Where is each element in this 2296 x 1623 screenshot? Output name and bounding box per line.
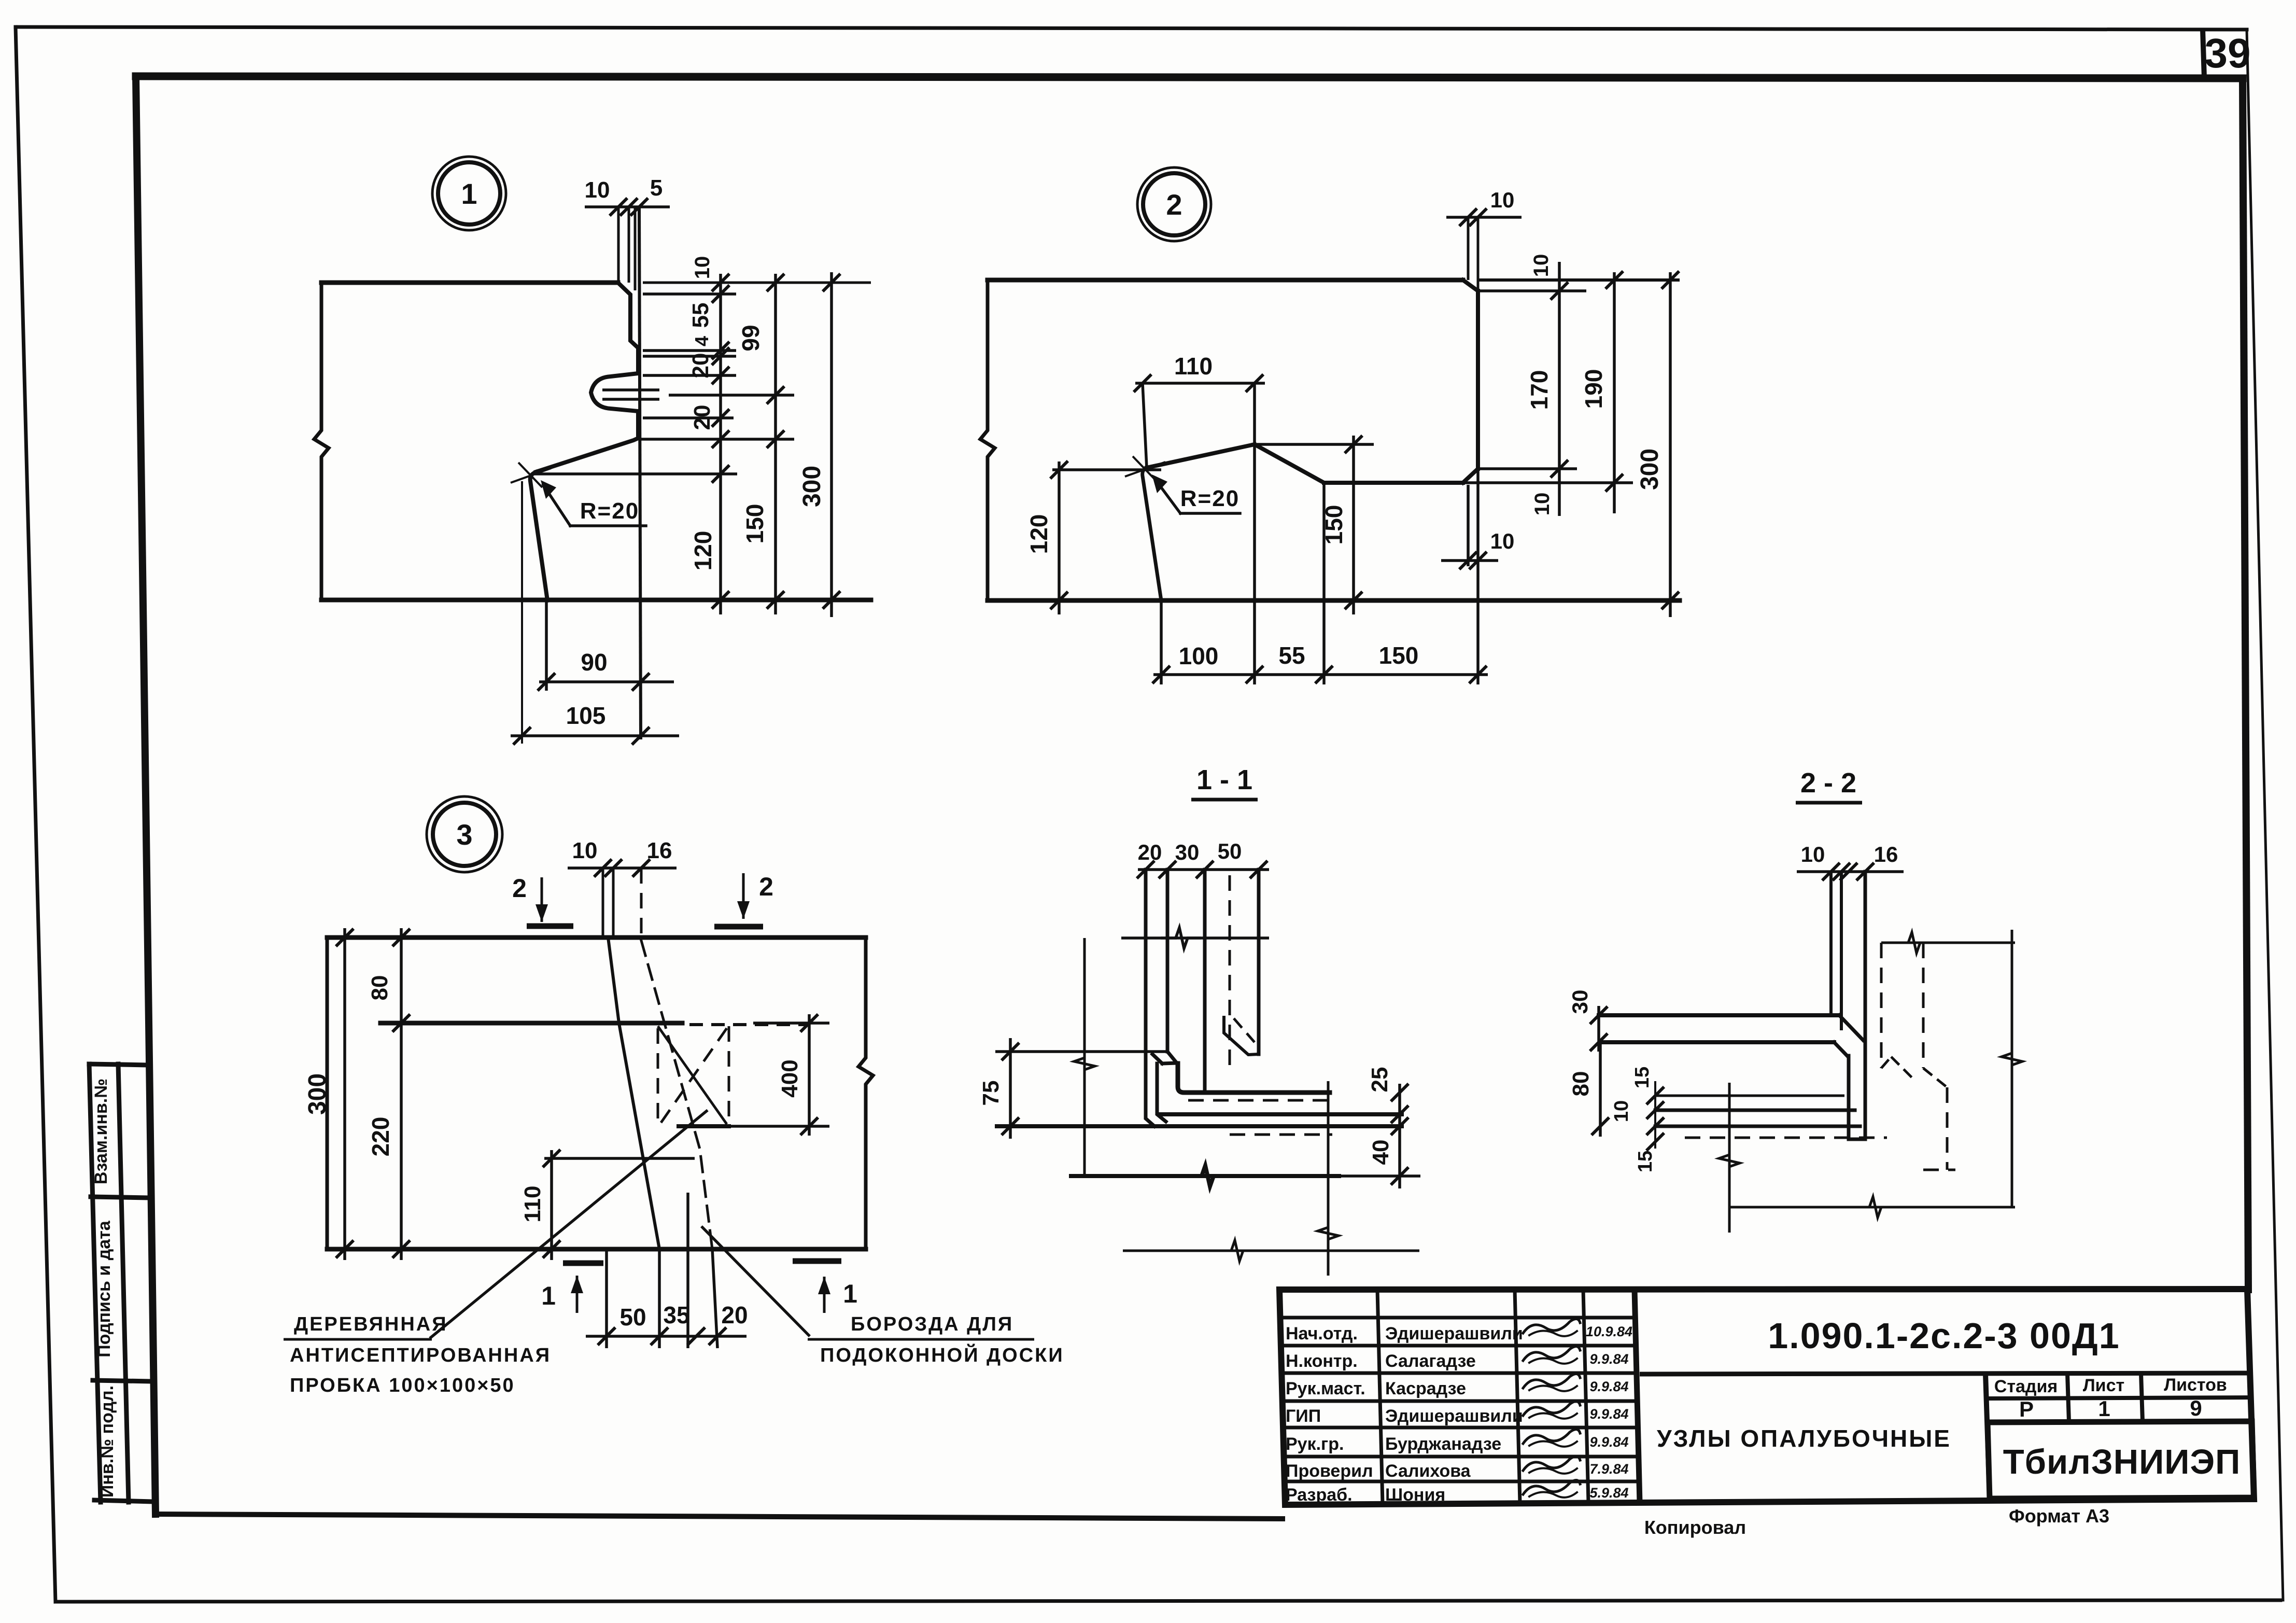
- detail 3 board solid line: [603, 868, 659, 1249]
- svg-text:35: 35: [663, 1302, 689, 1328]
- svg-text:ТбилЗНИИЭП: ТбилЗНИИЭП: [2003, 1443, 2241, 1481]
- callout text АНТИСЕПТИРОВАННАЯ: [290, 1345, 551, 1366]
- detail 3 sill line: [381, 1021, 682, 1026]
- detail 1 top dim text 10: [585, 177, 610, 203]
- svg-text:Касрадзе: Касрадзе: [1385, 1379, 1466, 1398]
- detail 3 left dim chain outer: [336, 928, 354, 1260]
- detail 2 lower board lines: [1468, 471, 1478, 684]
- section 2-2 slab second line: [1600, 1040, 1834, 1044]
- svg-text:2 - 2: 2 - 2: [1800, 767, 1856, 799]
- detail 2 ext mid vertical: [1253, 383, 1256, 684]
- section 1-1 flange mid line: [1161, 1112, 1402, 1116]
- detail 3 section mark 1 left: [541, 1263, 603, 1313]
- svg-text:80: 80: [1568, 1071, 1594, 1097]
- section 2-2 bottom boundary line: [1729, 1197, 2015, 1218]
- detail 2 steep drip line: [1143, 468, 1161, 600]
- section 2-2 dim 16 text: [1874, 842, 1898, 866]
- detail 3 plug box dashed left edge: [657, 1028, 659, 1124]
- detail 1 dim chain C line: [823, 272, 840, 617]
- section 1-1 outer left wall: [1146, 870, 1154, 1126]
- detail 2 ext 110 left: [1143, 383, 1147, 468]
- svg-text:Шония: Шония: [1385, 1485, 1445, 1505]
- svg-text:105: 105: [566, 702, 606, 729]
- detail 2 board verticals: [1468, 217, 1478, 291]
- left strip frame: [89, 1064, 153, 1502]
- detail 1 level line 762: [669, 394, 794, 397]
- section label 1-1: [1191, 764, 1258, 800]
- section 1-1 right wall: [1257, 870, 1261, 1054]
- svg-text:Лист: Лист: [2083, 1376, 2124, 1395]
- section 1-1 dim 50 text: [1218, 839, 1242, 863]
- svg-text:Проверил: Проверил: [1286, 1461, 1373, 1481]
- section 1-1 dim 40 text: [1368, 1140, 1393, 1165]
- detail 2 dim 10 upper right text: [1530, 254, 1553, 277]
- svg-text:15: 15: [1631, 1067, 1653, 1088]
- svg-text:170: 170: [1526, 370, 1553, 410]
- detail 1 panel right profile: [530, 283, 638, 600]
- detail 1 ext line 90 left: [545, 601, 548, 691]
- title row Нач.отд.: [1286, 1319, 1632, 1344]
- detail 1 level line 806: [643, 416, 734, 419]
- section 1-1 lower boundary line: [1123, 1250, 1419, 1252]
- svg-text:300: 300: [1636, 449, 1664, 490]
- org name ТбилЗНИИЭП: [2003, 1443, 2241, 1481]
- detail 1 dim 90: [538, 673, 674, 691]
- section 1-1 flange hidden dashed bottom: [1230, 1134, 1332, 1136]
- detail 3 dim 300 text: [304, 1073, 331, 1115]
- section 1-1 dim 75 line: [1002, 1038, 1019, 1139]
- detail 3 top dim text 10: [572, 838, 598, 863]
- detail 2 shelf line: [1324, 481, 1463, 485]
- svg-text:20: 20: [721, 1302, 748, 1328]
- callout underline right: [808, 1338, 1034, 1341]
- detail 1 dim 105 text: [566, 702, 606, 729]
- svg-text:10: 10: [1611, 1100, 1632, 1122]
- detail 3 plug diagonal solid: [658, 1026, 727, 1124]
- svg-text:120: 120: [1025, 514, 1052, 554]
- detail 1 dim text 20 lower: [689, 405, 715, 430]
- detail 3 left dim chain inner: [392, 928, 410, 1260]
- section 2-2 hidden tongue dashed: [1881, 1057, 1947, 1087]
- svg-text:99: 99: [737, 325, 764, 351]
- section 2-2 hidden column dashed right: [1922, 943, 1925, 1068]
- section 1-1 flange bottom line: [997, 1124, 1402, 1128]
- section 1-1 inner left wall: [1166, 870, 1170, 1052]
- svg-text:Бурджанадзе: Бурджанадзе: [1385, 1434, 1501, 1454]
- detail 1 level line 685: [643, 355, 736, 358]
- detail 1 formwork board lines: [618, 207, 641, 739]
- svg-text:10: 10: [1801, 842, 1825, 866]
- callout text ДЕРЕВЯННАЯ: [294, 1313, 448, 1335]
- svg-text:50: 50: [1218, 839, 1242, 863]
- svg-text:Нач.отд.: Нач.отд.: [1286, 1324, 1358, 1344]
- detail 2 slope down: [1147, 444, 1255, 468]
- section 2-2 dim 10 small text: [1611, 1100, 1632, 1122]
- section 2-2 slab line 2141: [1655, 1109, 1855, 1112]
- section label 2-2: [1796, 767, 1862, 803]
- svg-text:10: 10: [1490, 529, 1515, 553]
- detail 3 left edge: [326, 938, 329, 1249]
- detail 3 section mark 2 left: [512, 874, 573, 926]
- svg-text:20: 20: [688, 353, 713, 379]
- detail 3 dim 400 text: [777, 1059, 802, 1097]
- section 1-1 dim 25 text: [1367, 1067, 1392, 1093]
- detail 3 slab top edge: [327, 935, 866, 940]
- detail 2 slope up: [1255, 444, 1324, 483]
- stadia header: [1994, 1375, 2227, 1396]
- detail 1 panel top edge: [321, 281, 871, 285]
- detail 2 dim 120 line: [1050, 461, 1068, 614]
- section 2-2 dim 30 line: [1590, 1006, 1608, 1052]
- svg-text:4: 4: [691, 336, 712, 346]
- detail 3 level line 2172 ext: [729, 1125, 829, 1128]
- section 1-1 flange hidden dashed top: [1188, 1099, 1332, 1102]
- svg-text:220: 220: [367, 1117, 394, 1157]
- svg-text:20: 20: [1138, 840, 1162, 864]
- svg-text:1: 1: [2098, 1396, 2110, 1421]
- detail 1 level line 676: [643, 349, 736, 352]
- detail 3 level line 2234: [544, 1157, 695, 1160]
- detail 3 board dashed line: [641, 868, 712, 1249]
- svg-text:Стадия: Стадия: [1994, 1377, 2058, 1396]
- svg-text:7.9.84: 7.9.84: [1589, 1461, 1628, 1477]
- svg-text:Инв.№ подл.: Инв.№ подл.: [97, 1386, 117, 1498]
- detail 2 dim 150 text: [1320, 505, 1347, 545]
- detail 2 bottom ext left: [1160, 601, 1163, 684]
- svg-text:20: 20: [689, 405, 715, 430]
- detail 3 dim 220 text: [367, 1117, 394, 1157]
- callout text БОРОЗДА ДЛЯ: [851, 1313, 1013, 1335]
- detail 3 plug diagonal dashed: [660, 1028, 727, 1124]
- section 1-1 top dim line: [1137, 861, 1269, 878]
- svg-text:150: 150: [741, 504, 768, 544]
- detail 2 level line 561: [1478, 289, 1586, 292]
- svg-text:40: 40: [1368, 1140, 1393, 1165]
- title row Рук.гр.: [1286, 1429, 1629, 1454]
- svg-text:10: 10: [572, 838, 598, 863]
- detail 2 dim 100 text: [1179, 642, 1219, 669]
- detail 2 bottom dim chain: [1152, 666, 1488, 683]
- title row Н.контр.: [1286, 1346, 1629, 1371]
- detail 2 ext 150 left: [1322, 483, 1326, 684]
- section 2-2 hidden column dashed left: [1880, 943, 1883, 1068]
- doc number: [1768, 1316, 2120, 1356]
- section 2-2 top dim line: [1797, 863, 1904, 880]
- section 2-2 corner chamfers: [1834, 1015, 1863, 1056]
- section 2-2 dim 15 lower text: [1635, 1151, 1656, 1172]
- section 2-2 dim 80 line: [1591, 1042, 1609, 1137]
- detail 1 dim text 300: [798, 466, 826, 507]
- svg-text:ГИП: ГИП: [1286, 1406, 1321, 1426]
- detail 1 dim text 4: [691, 336, 712, 346]
- detail 1 corner construction cross: [511, 463, 551, 487]
- title block column lines: [1377, 1290, 1640, 1504]
- svg-text:Подпись и дата: Подпись и дата: [94, 1220, 114, 1358]
- detail 2 left break edge: [980, 280, 995, 600]
- section 1-1 ext line 2028: [995, 1050, 1167, 1053]
- detail 1 top dimension line: [585, 198, 670, 216]
- detail 3 dim 110 line: [543, 1150, 560, 1260]
- section 2-2 small ticks lower: [1646, 1117, 1664, 1151]
- detail 3 dim 110 text: [520, 1186, 545, 1223]
- section 1-1 concrete bottom edge: [1071, 1174, 1339, 1178]
- detail 1 dim text 99: [737, 325, 764, 351]
- detail 3 bottom dim chain: [586, 1327, 746, 1345]
- svg-text:1: 1: [843, 1279, 857, 1308]
- svg-text:55: 55: [688, 303, 713, 328]
- detail 2 face vertical: [1476, 291, 1480, 469]
- svg-text:110: 110: [520, 1186, 545, 1223]
- section 2-2 dim 10 text: [1801, 842, 1825, 866]
- detail 2 dim 170 line: [1551, 262, 1568, 516]
- detail 1 level line 845: [640, 438, 794, 441]
- detail 1 dim chain A line: [712, 274, 729, 614]
- section 1-1 sill tongue: [1224, 1017, 1259, 1055]
- svg-text:ПОДОКОННОЙ ДОСКИ: ПОДОКОННОЙ ДОСКИ: [820, 1343, 1064, 1366]
- section 1-1 left boundary break: [1074, 1044, 1095, 1082]
- detail 1 level line 724: [643, 374, 736, 377]
- svg-text:9.9.84: 9.9.84: [1589, 1406, 1628, 1422]
- detail 1 top dim text 5: [650, 175, 663, 201]
- svg-text:Листов: Листов: [2164, 1375, 2227, 1395]
- callout leader groove: [701, 1226, 810, 1336]
- stadia values: [2019, 1396, 2202, 1421]
- detail 1 dim text 150: [741, 504, 768, 544]
- left strip label Подпись и дата: [94, 1220, 114, 1358]
- detail 2 radius text: [1180, 486, 1239, 511]
- detail 2 small dim 10 lower text: [1490, 529, 1515, 553]
- detail 1 dim text 10: [691, 256, 714, 279]
- title block right divider: [1640, 1373, 2250, 1374]
- svg-text:Эдишерашвили: Эдишерашвили: [1385, 1324, 1523, 1344]
- svg-text:110: 110: [1174, 353, 1213, 380]
- svg-text:1: 1: [461, 177, 477, 210]
- svg-text:Копировал: Копировал: [1644, 1517, 1746, 1538]
- left strip label Взам.инв.№: [91, 1079, 111, 1184]
- detail 1 dim text 55: [688, 303, 713, 328]
- detail 2 level line 857: [1255, 443, 1374, 446]
- svg-text:1: 1: [541, 1281, 556, 1310]
- detail 3 top dim text 16: [647, 838, 672, 863]
- svg-text:39: 39: [2205, 30, 2251, 76]
- svg-text:Н.контр.: Н.контр.: [1286, 1351, 1358, 1371]
- section 2-2 board verticals: [1831, 872, 1865, 1139]
- section 2-2 dim 15 upper: [1646, 1081, 1664, 1149]
- svg-text:10: 10: [1530, 254, 1553, 277]
- section 2-2 left boundary vertical: [1719, 1083, 1740, 1233]
- section 1-1 lower boundary vertical break: [1318, 1214, 1339, 1251]
- section 1-1 dim 75 text: [978, 1081, 1004, 1106]
- detail 3 sill line dashed part: [689, 1023, 807, 1026]
- svg-text:3: 3: [456, 818, 472, 851]
- section 2-2 slab line 2113: [1655, 1095, 1844, 1097]
- left strip label Инв.№ подл.: [97, 1386, 117, 1498]
- detail 2 panel bottom edge: [988, 598, 1680, 603]
- svg-text:БОРОЗДА ДЛЯ: БОРОЗДА ДЛЯ: [851, 1313, 1013, 1335]
- sheet title УЗЛЫ ОПАЛУБОЧНЫЕ: [1657, 1425, 1951, 1452]
- svg-text:30: 30: [1568, 990, 1592, 1014]
- svg-text:R=20: R=20: [580, 498, 639, 524]
- detail 3 plug box dashed right edge: [728, 1026, 730, 1126]
- detail 2 top dim line: [1446, 208, 1522, 226]
- svg-text:Эдишерашвили: Эдишерашвили: [1385, 1406, 1523, 1426]
- svg-text:90: 90: [581, 649, 607, 676]
- svg-text:Рук.гр.: Рук.гр.: [1286, 1434, 1344, 1454]
- detail 2 dim 150b text: [1379, 642, 1419, 669]
- detail 2 bottom chamfer: [1463, 469, 1478, 483]
- detail 1 left break edge: [314, 283, 329, 600]
- svg-text:9.9.84: 9.9.84: [1589, 1434, 1628, 1450]
- callout text ПРОБКА: [290, 1375, 515, 1396]
- section 2-2 dim 80 text: [1568, 1071, 1594, 1097]
- svg-text:10: 10: [1490, 188, 1515, 212]
- title row ГИП: [1286, 1401, 1629, 1426]
- section 2-2 top boundary line: [1881, 932, 2015, 953]
- detail 2 level line 904 right: [1478, 467, 1577, 470]
- callout text ПОДОКОННОЙ ДОСКИ: [820, 1343, 1064, 1366]
- detail 2 dim 300 text: [1636, 449, 1664, 490]
- svg-text:Формат А3: Формат А3: [2009, 1505, 2109, 1527]
- svg-text:400: 400: [777, 1059, 802, 1097]
- detail 3 dim 35 text: [663, 1302, 689, 1328]
- svg-text:80: 80: [367, 975, 392, 1001]
- svg-text:9.9.84: 9.9.84: [1589, 1351, 1628, 1367]
- svg-text:10.9.84: 10.9.84: [1586, 1324, 1632, 1339]
- detail 1 radius callout: [541, 480, 646, 526]
- svg-text:300: 300: [304, 1073, 331, 1115]
- section 1-1 concrete bottom break: [1188, 1166, 1226, 1186]
- svg-text:10: 10: [585, 177, 610, 203]
- title block row lines: [1280, 1318, 1639, 1481]
- detail 2 dim 190 line: [1605, 271, 1623, 513]
- detail 2 dim 110 line: [1134, 374, 1265, 392]
- svg-text:1 - 1: 1 - 1: [1196, 764, 1252, 795]
- title row Разраб.: [1286, 1480, 1629, 1505]
- detail 3 dim 20 text: [721, 1302, 748, 1328]
- detail 3 bottom ext lines: [607, 1193, 717, 1348]
- format text: [2009, 1505, 2109, 1527]
- section 2-2 hidden lower dashed: [1923, 1087, 1955, 1170]
- svg-text:ПРОБКА 100×100×50: ПРОБКА 100×100×50: [290, 1375, 515, 1396]
- detail 2 dim 170 text: [1526, 370, 1553, 410]
- svg-text:5.9.84: 5.9.84: [1589, 1485, 1628, 1501]
- detail 3 dim 80 text: [367, 975, 392, 1001]
- svg-text:75: 75: [978, 1081, 1004, 1106]
- svg-text:10: 10: [1531, 493, 1554, 516]
- detail 3 slab bottom edge: [327, 1247, 866, 1252]
- section 1-1 lower boundary vertical: [1327, 1081, 1330, 1276]
- svg-text:15: 15: [1635, 1151, 1656, 1172]
- detail 3 top dim line: [568, 859, 677, 877]
- svg-text:ДЕРЕВЯННАЯ: ДЕРЕВЯННАЯ: [294, 1313, 448, 1335]
- svg-text:9: 9: [2190, 1396, 2202, 1420]
- sheet number box: [2203, 30, 2204, 78]
- detail 1 level line 567: [643, 292, 736, 296]
- detail 2 level line 906 left: [1052, 468, 1161, 471]
- section 2-2 dim 15 upper text: [1631, 1067, 1653, 1088]
- detail 2 dim 10 lower right text: [1531, 493, 1554, 516]
- svg-text:Р: Р: [2019, 1397, 2034, 1421]
- svg-text:55: 55: [1278, 642, 1305, 669]
- detail 2 dim 150 line: [1345, 436, 1362, 614]
- svg-text:25: 25: [1367, 1067, 1392, 1093]
- detail 3 plug box bottom: [679, 1124, 729, 1128]
- detail 2 dim 110 text: [1174, 353, 1213, 380]
- svg-text:Взам.инв.№: Взам.инв.№: [91, 1079, 111, 1184]
- svg-text:190: 190: [1580, 369, 1607, 409]
- section 1-1 inner elbow: [1178, 1064, 1330, 1093]
- detail 1 panel bottom edge: [321, 598, 871, 603]
- svg-text:Салагадзе: Салагадзе: [1385, 1351, 1476, 1371]
- detail 3 section mark 1 right: [793, 1261, 857, 1313]
- svg-text:100: 100: [1179, 642, 1219, 669]
- svg-text:16: 16: [647, 838, 672, 863]
- svg-text:300: 300: [798, 466, 826, 507]
- svg-text:УЗЛЫ ОПАЛУБОЧНЫЕ: УЗЛЫ ОПАЛУБОЧНЫЕ: [1657, 1425, 1951, 1452]
- section 1-1 left boundary line: [1083, 938, 1086, 1178]
- stadia table divider: [1985, 1374, 1990, 1499]
- detail 1 dim 90 text: [581, 649, 607, 676]
- section 1-1 lower boundary break: [1218, 1240, 1255, 1261]
- svg-text:9.9.84: 9.9.84: [1589, 1379, 1628, 1394]
- title row Рук.маст.: [1286, 1374, 1629, 1398]
- org box: [1988, 1421, 2254, 1499]
- detail 3 dim 400 line: [800, 1014, 818, 1136]
- svg-text:1.090.1-2с.2-3 00Д1: 1.090.1-2с.2-3 00Д1: [1768, 1316, 2120, 1356]
- svg-text:2: 2: [1166, 188, 1182, 221]
- svg-text:5: 5: [650, 175, 663, 201]
- svg-text:R=20: R=20: [1180, 486, 1239, 511]
- section 1-1 dim 20 text: [1138, 840, 1162, 864]
- svg-text:Рук.маст.: Рук.маст.: [1286, 1379, 1365, 1398]
- section 1-1 mid wall: [1203, 870, 1207, 1089]
- detail 3 right break edge: [858, 938, 873, 1249]
- svg-text:50: 50: [619, 1304, 646, 1331]
- svg-text:2: 2: [759, 872, 773, 901]
- section 1-1 ext bottom right: [1339, 1174, 1420, 1178]
- title row Проверил: [1286, 1456, 1629, 1481]
- section 1-1 corner chamfer block: [1152, 1052, 1177, 1122]
- detail 2 dim 300 line: [1661, 271, 1679, 617]
- callout leader wooden plug: [430, 1110, 708, 1338]
- detail 2 top dim text 10: [1490, 188, 1515, 212]
- callout underline left: [284, 1338, 432, 1341]
- section 2-2 slab top line: [1599, 1013, 1839, 1017]
- detail 3 callout circle: [427, 796, 502, 872]
- detail 3 section mark 2 right: [714, 872, 773, 927]
- detail 2 callout circle: [1137, 167, 1211, 241]
- section 2-2 slab dashed line: [1685, 1137, 1887, 1139]
- svg-text:10: 10: [691, 256, 714, 279]
- detail 1 dim chain B line: [767, 274, 784, 614]
- detail 2 corner construction cross: [1125, 456, 1165, 481]
- svg-text:Салихова: Салихова: [1385, 1461, 1471, 1481]
- detail 3 sill line right ext: [753, 1022, 829, 1025]
- section 1-1 concrete level line: [1121, 936, 1269, 940]
- detail 2 dim 120 text: [1025, 514, 1052, 554]
- section 1-1 hidden wall dashed: [1229, 875, 1231, 1074]
- svg-text:120: 120: [689, 531, 716, 571]
- detail 2 dim 55 text: [1278, 642, 1305, 669]
- detail 1 radius text: [580, 498, 639, 524]
- detail 1 dim text 120: [689, 531, 716, 571]
- detail 1 callout circle: [432, 157, 506, 230]
- section 1-1 dim 25-40 line: [1391, 1084, 1408, 1188]
- detail 2 small dim 10 lower: [1441, 552, 1498, 569]
- svg-text:30: 30: [1175, 840, 1200, 864]
- kopiroval text: [1644, 1517, 1746, 1538]
- detail 1 groove slot lines: [602, 390, 659, 399]
